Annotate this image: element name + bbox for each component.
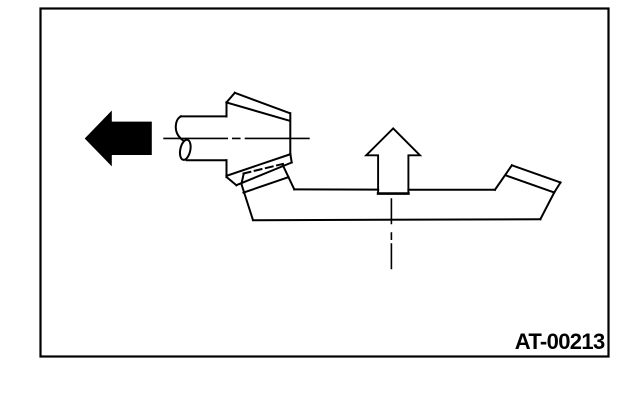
bar top line (left of arrow stem) bbox=[294, 188, 378, 190]
arm right edge bbox=[283, 165, 295, 190]
shaft cylinder top line bbox=[181, 115, 227, 117]
shaft end arc bbox=[176, 116, 184, 140]
frame border bbox=[41, 9, 609, 357]
collar right cap bbox=[290, 154, 291, 162]
hollow up arrow bbox=[366, 128, 420, 193]
collar hidden dashed line bbox=[244, 164, 284, 174]
cone bottom chamfer bbox=[227, 177, 237, 185]
cone top edge bbox=[235, 93, 290, 113]
solid left-pointing arrow bbox=[85, 111, 152, 167]
up arrow thick base bbox=[378, 192, 408, 195]
end pad top edge bbox=[512, 165, 561, 182]
bar bottom line bbox=[253, 219, 541, 220]
cone left vertical edge (upper) bbox=[226, 102, 228, 116]
cone top chamfer bbox=[227, 93, 235, 103]
shaft cylinder bottom line bbox=[187, 159, 227, 161]
bar top line (right of arrow stem) bbox=[408, 189, 495, 191]
right end riser slant bbox=[495, 165, 512, 190]
cone top inner line bbox=[227, 102, 290, 120]
cone bottom edge bbox=[227, 154, 291, 176]
arm top face line bbox=[244, 177, 289, 193]
horizontal dash-dot centerline bbox=[164, 137, 309, 139]
shaft end ellipse bbox=[178, 139, 192, 161]
end pad lower edge bbox=[507, 176, 555, 193]
cone right vertical edge bbox=[289, 113, 291, 154]
arm left edge bbox=[241, 175, 253, 220]
end pad right cap bbox=[554, 183, 560, 193]
bar right steep edge bbox=[540, 193, 554, 220]
label AT-00213 bbox=[515, 329, 605, 355]
cone left vertical edge (lower) bbox=[226, 160, 228, 177]
vertical dash-dot centerline bbox=[390, 199, 392, 269]
collar bottom edge bbox=[236, 163, 291, 186]
